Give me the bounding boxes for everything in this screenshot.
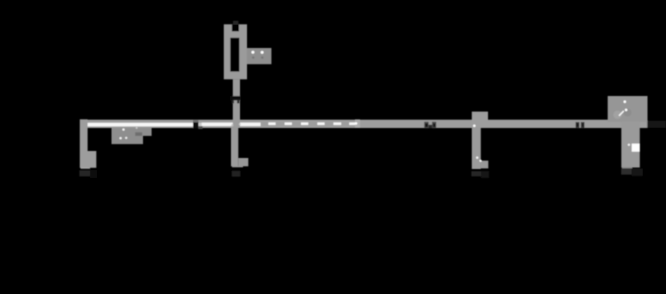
ground: below source V1 [79,170,97,178]
node B: junction post at x=356 on rail [355,119,360,128]
battery V2 foot block at branch x=235 [232,158,248,167]
battery V1 body plates [81,151,97,169]
node E: posts between R1 lead and rail branch [230,96,241,103]
ground: below LED D1 [621,169,643,177]
node A: junction posts at x=196 on rail [193,120,203,129]
wire: current trace segment right of node A [199,123,261,127]
wire: lead continuing down to rail at x=236 [231,100,241,128]
wire: faint rail stub right of label to image edge [647,121,666,128]
wire: vertical branch below rail at x=235 [231,127,238,166]
ground: below branch x=235 [232,171,241,177]
resistor R1 (box style, vertical above rail) [224,21,247,80]
label: source value text (left, two lines) [112,127,152,144]
label: resistor R1 value [247,48,272,64]
LED D1 body (vertical column, right) [621,122,640,168]
wire: continuous current trace on left rail segment [88,123,194,127]
LED D1 lit indicator square [628,144,640,152]
label: LED D1 text block (top right) [608,96,648,122]
capacitor C1 foot block at branch x=475 [476,157,488,169]
wire: main horizontal rail (node N1) [83,120,647,128]
ground: below branch x=475 [471,171,489,178]
wire: vertical branch below rail at x=475 [472,127,481,169]
node F: junction above rail at x=475 [472,112,488,128]
node D: junction posts at x=576..583 on rail [576,122,585,128]
node C: junction posts at x=425..437 on rail [424,122,436,128]
wire: moving current dashes on middle rail segment [268,122,357,125]
wire: left vertical lead of source V1 [80,119,88,168]
wire: lead from resistor R1 bottom [233,79,240,96]
